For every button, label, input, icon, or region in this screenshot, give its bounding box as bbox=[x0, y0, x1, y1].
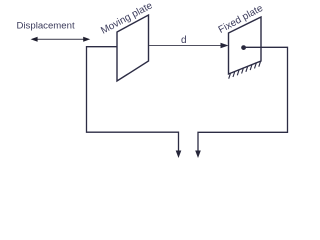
displacement double arrow bbox=[31, 37, 91, 42]
svg-text:Displacement: Displacement bbox=[17, 21, 75, 32]
wire moving plate to left and down to output bbox=[87, 47, 179, 153]
wire fixed plate to right and down to output bbox=[198, 47, 288, 153]
ground hatching under fixed plate bbox=[229, 61, 261, 78]
svg-text:d: d bbox=[181, 35, 187, 46]
d dimension arrow bbox=[149, 43, 229, 49]
arrowhead left output bbox=[176, 151, 182, 159]
arrowhead right output bbox=[195, 151, 201, 159]
fixed plate bbox=[229, 17, 262, 74]
connection dot on fixed plate bbox=[241, 45, 246, 50]
moving plate bbox=[117, 15, 149, 81]
